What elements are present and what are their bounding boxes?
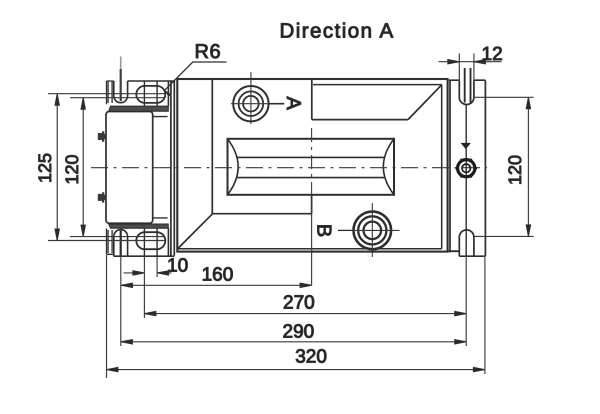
obround vertical lines bbox=[144, 228, 157, 256]
svg-text:12: 12 bbox=[482, 44, 503, 65]
dimension 10 bbox=[124, 272, 172, 274]
vertical extension from centerline to 160 dim bbox=[311, 206, 313, 285]
bevel top-right diagonal bbox=[408, 85, 442, 120]
top U-slot bbox=[459, 80, 474, 104]
left dimension 125 bbox=[48, 94, 165, 241]
dimension 160 bbox=[121, 284, 312, 286]
svg-text:320: 320 bbox=[295, 347, 327, 368]
right mounting plate bbox=[449, 68, 486, 256]
left bracket edge lines bbox=[170, 81, 172, 256]
body outline bbox=[177, 79, 447, 252]
dimension 270 bbox=[144, 313, 466, 315]
left bolt lower bbox=[98, 192, 107, 202]
top foot outline bbox=[107, 57, 175, 107]
window slot outer rect bbox=[228, 139, 395, 195]
left bolt upper bbox=[98, 131, 107, 141]
top foot gusset bar (dark) bbox=[109, 106, 169, 111]
top edge right of slot bbox=[128, 81, 175, 106]
bolt in slot bbox=[120, 231, 122, 257]
plate bottom edge bbox=[459, 255, 485, 257]
svg-text:Direction A: Direction A bbox=[280, 19, 395, 42]
svg-text:10: 10 bbox=[167, 256, 188, 277]
plate sides bbox=[450, 80, 485, 256]
left bracket step lines bbox=[152, 117, 167, 218]
bottom inverted U-slot bbox=[459, 230, 474, 256]
window slot inner top line bbox=[237, 156, 384, 158]
stud in top slot bbox=[465, 68, 471, 103]
obround hole bbox=[136, 232, 165, 249]
window slot left concave arc bbox=[228, 139, 239, 195]
plate top edge (interrupted by slot) bbox=[449, 79, 486, 81]
earthing bolt bbox=[456, 160, 476, 177]
window slot inner bottom line bbox=[237, 177, 384, 179]
dimension 320 bbox=[107, 369, 485, 371]
svg-text:290: 290 bbox=[283, 322, 315, 343]
svg-text:270: 270 bbox=[283, 293, 315, 314]
body inner bottom line bbox=[178, 248, 442, 250]
bottom extension lines bbox=[107, 255, 485, 378]
obround vertical lines bbox=[144, 81, 157, 106]
bevel top band top line bbox=[313, 84, 442, 86]
body inner right line bbox=[441, 85, 443, 249]
body bottom edge extension to plate slot bbox=[448, 250, 459, 252]
svg-text:B: B bbox=[312, 224, 334, 237]
main horizontal centerline bbox=[91, 167, 487, 169]
vertical centerline of window bbox=[311, 128, 313, 206]
bottom foot gusset bar (dark) bbox=[109, 224, 169, 228]
bottom foot outline bbox=[107, 228, 175, 256]
bolt in slot bbox=[120, 57, 122, 70]
bevel top-left step edge bbox=[311, 79, 313, 120]
plate bolt centerline bbox=[465, 105, 467, 257]
dimension 290 bbox=[121, 341, 466, 343]
obround hole bbox=[136, 86, 165, 103]
right dimension 120 bbox=[475, 97, 534, 236]
bottom edge bbox=[114, 228, 175, 256]
bevel bottom-left diagonal bbox=[178, 214, 213, 249]
terminal B bbox=[354, 212, 392, 250]
terminal A bbox=[233, 86, 268, 121]
dimension 12 bbox=[439, 54, 502, 81]
left bracket plate bbox=[106, 112, 153, 224]
window slot right concave arc bbox=[383, 139, 394, 195]
label A leader bbox=[269, 103, 284, 105]
bevel top band bottom line bbox=[312, 119, 408, 121]
inverted U-slot bbox=[114, 230, 128, 257]
tab with slot seen edge-on bbox=[107, 229, 114, 255]
R6 leader bbox=[165, 62, 227, 90]
earthing triangle bbox=[461, 143, 471, 149]
terminal A centerlines bbox=[231, 72, 281, 124]
svg-text:120: 120 bbox=[62, 154, 82, 184]
terminal B centerlines bbox=[353, 203, 400, 257]
svg-text:120: 120 bbox=[505, 155, 525, 185]
label B leader bbox=[338, 229, 353, 231]
U-slot bbox=[114, 81, 128, 103]
svg-text:A: A bbox=[282, 97, 304, 111]
tab with slot seen edge-on bbox=[107, 81, 114, 104]
plateau left edge bbox=[211, 79, 213, 214]
left dimension 120 bbox=[70, 98, 165, 237]
svg-text:R6: R6 bbox=[195, 41, 222, 63]
bevel bottom band top line bbox=[213, 213, 312, 215]
svg-text:160: 160 bbox=[202, 265, 234, 286]
svg-text:125: 125 bbox=[35, 153, 55, 183]
bevel bottom step edge bbox=[311, 196, 313, 214]
